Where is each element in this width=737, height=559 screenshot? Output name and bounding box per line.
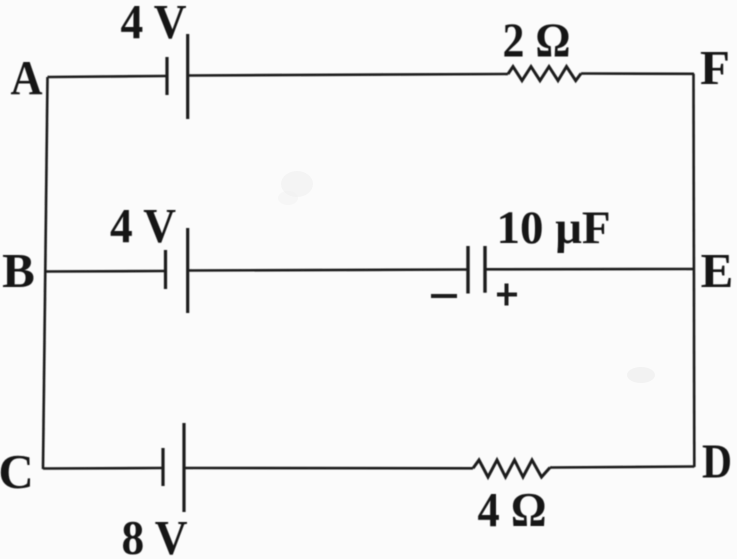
wire battery V3 to resistor R2: [184, 467, 473, 470]
svg-text:10 μF: 10 μF: [496, 202, 610, 254]
svg-text:2 Ω: 2 Ω: [503, 13, 571, 68]
battery V1 4V (top): [167, 34, 188, 119]
wire resistor R2 to D: [550, 467, 694, 468]
svg-text:D: D: [702, 434, 732, 489]
capacitor minus sign: [431, 294, 457, 298]
wire A to battery V1: [48, 76, 168, 77]
svg-text:4 V: 4 V: [121, 0, 187, 49]
wire C to battery V3: [43, 467, 163, 470]
svg-text:4 Ω: 4 Ω: [478, 482, 547, 537]
wire capacitor C1 to E: [485, 268, 694, 271]
svg-text:E: E: [701, 243, 734, 298]
resistor R1 2-ohm zigzag: [508, 67, 581, 81]
capacitor C1 10uF plates: [468, 246, 485, 294]
svg-text:F: F: [700, 40, 730, 95]
resistor R2 4-ohm zigzag: [473, 460, 550, 477]
wire resistor R1 to F: [581, 72, 694, 75]
wire battery V2 to capacitor C1: [188, 270, 468, 271]
wire left vertical A to B to C: [43, 77, 48, 469]
battery V2 4V (middle): [166, 228, 188, 313]
svg-text:C: C: [0, 444, 34, 499]
svg-text:B: B: [2, 243, 35, 298]
svg-text:4 V: 4 V: [110, 198, 176, 253]
battery V3 8V (bottom): [163, 423, 184, 512]
wire right vertical F to E to D: [692, 74, 695, 467]
svg-text:A: A: [11, 50, 44, 105]
capacitor plus sign: [497, 284, 517, 306]
wire B to battery V2: [45, 270, 166, 273]
svg-text:8 V: 8 V: [122, 510, 188, 559]
wire battery V1 to resistor R1: [188, 74, 508, 76]
